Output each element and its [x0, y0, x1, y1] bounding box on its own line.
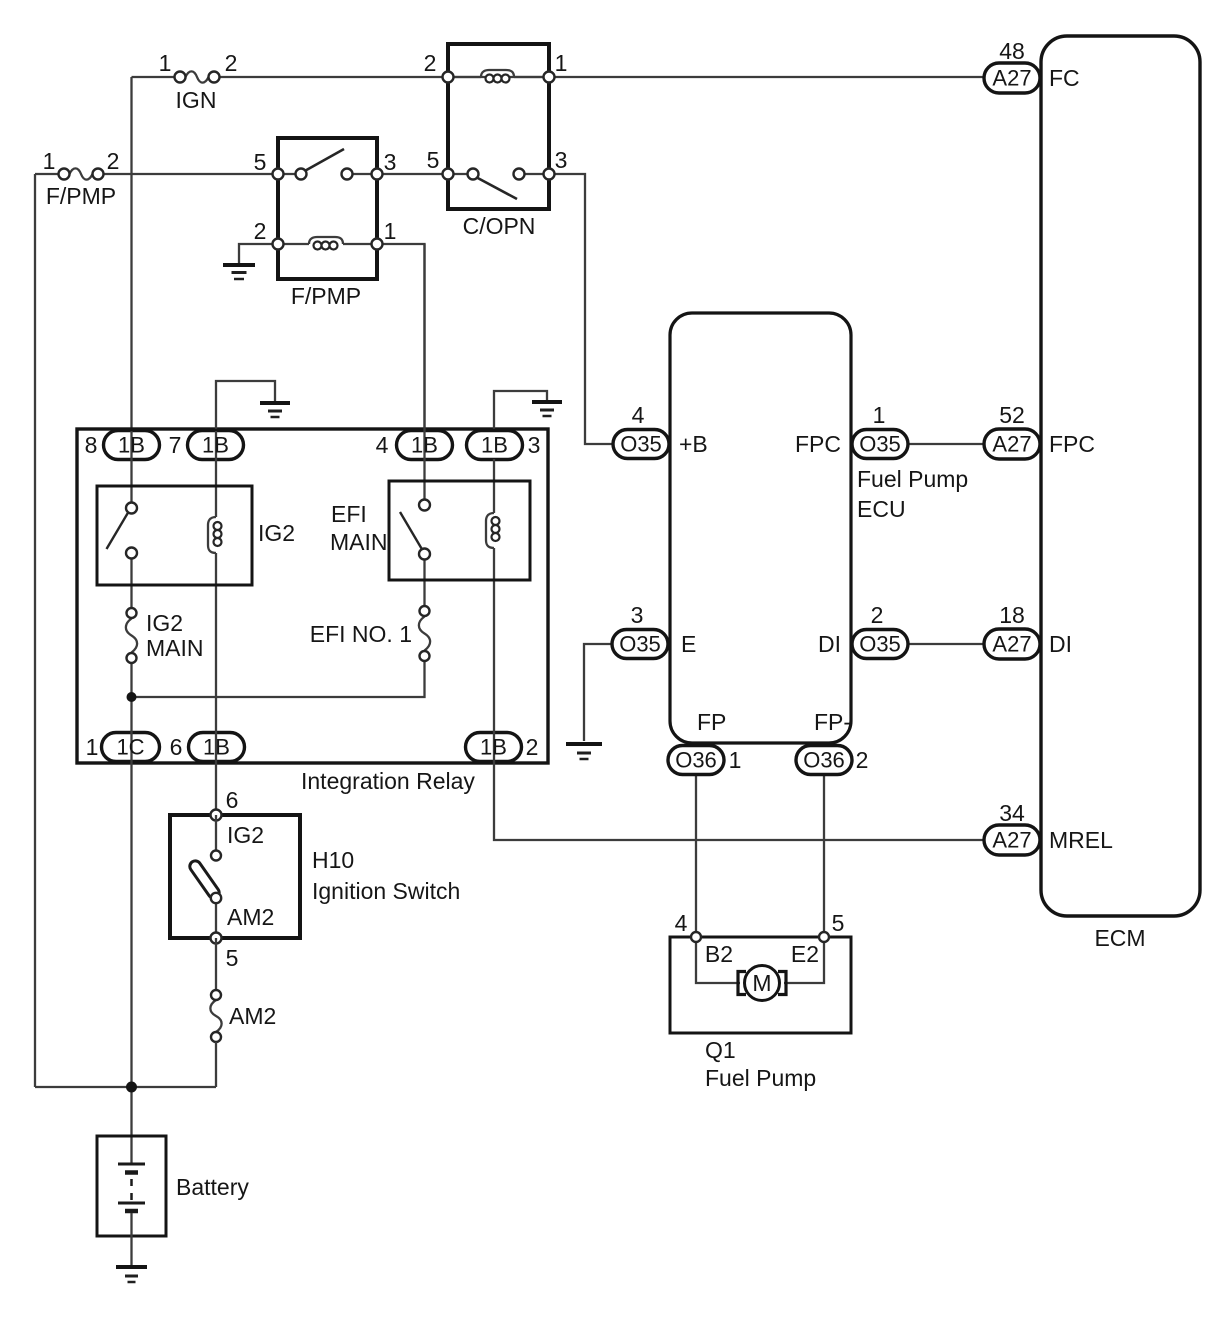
wire column pin4 oval to EFI MAIN switch [423, 244, 425, 500]
svg-text:O36: O36 [675, 748, 717, 773]
connector oval A27 DI [984, 629, 1040, 659]
wire ECU FP terminal down to fuel pump pin 4 [695, 774, 697, 937]
svg-text:2: 2 [225, 50, 238, 76]
connector oval A27 MREL [984, 825, 1040, 855]
wire AM2 fuse down to battery feed row [215, 1042, 217, 1087]
svg-text:A27: A27 [992, 828, 1031, 853]
relay EFI MAIN inner box [389, 481, 530, 580]
junction dot battery feed row [126, 1082, 137, 1093]
svg-text:1B: 1B [202, 433, 229, 458]
svg-text:IG2: IG2 [146, 610, 183, 636]
connector oval O35 +B [613, 430, 669, 459]
svg-text:1B: 1B [411, 433, 438, 458]
svg-text:5: 5 [427, 147, 440, 173]
svg-text:2: 2 [526, 734, 539, 760]
wire C/OPN pin 3 right then down to Fuel Pump ECU +B [549, 174, 614, 444]
battery cell plates [118, 1164, 145, 1211]
svg-text:MAIN: MAIN [146, 635, 204, 661]
svg-text:2: 2 [107, 148, 120, 174]
connector oval A27 FC [984, 63, 1040, 93]
svg-text:F/PMP: F/PMP [46, 183, 116, 209]
relay EFI MAIN switch contacts and blade [400, 500, 430, 560]
svg-text:AM2: AM2 [227, 904, 274, 930]
svg-text:DI: DI [1049, 631, 1072, 657]
svg-text:O35: O35 [619, 632, 661, 657]
svg-text:5: 5 [254, 149, 267, 175]
svg-text:Integration Relay: Integration Relay [301, 768, 475, 794]
svg-text:DI: DI [818, 631, 841, 657]
svg-text:5: 5 [226, 945, 239, 971]
fuel pump Q1 box [670, 937, 851, 1033]
svg-text:Fuel Pump: Fuel Pump [705, 1065, 816, 1091]
connector oval 1C pin 1 of Integration Relay [102, 733, 160, 762]
svg-text:1B: 1B [118, 433, 145, 458]
wire F/PMP relay pin 2 to ground stub [239, 244, 278, 263]
wire EFI NO. 1 fuse down and left to junction on IG2 MAIN column [132, 661, 425, 697]
svg-text:3: 3 [555, 147, 568, 173]
connector oval A27 FPC [984, 429, 1040, 459]
wire IG2 MAIN fuse through junction and 1C oval down to battery junction [130, 663, 132, 1164]
svg-text:FPC: FPC [795, 431, 841, 457]
svg-text:FP: FP [697, 709, 726, 735]
svg-text:3: 3 [384, 149, 397, 175]
svg-text:2: 2 [856, 747, 869, 773]
svg-text:E: E [681, 631, 696, 657]
svg-text:A27: A27 [992, 432, 1031, 457]
wire IGN feed: corner from top row down to Integration Relay pin 8 column [130, 77, 132, 431]
svg-text:Q1: Q1 [705, 1037, 736, 1063]
relay IG2 coil [208, 517, 222, 553]
wire ignition switch pin 5 to AM2 fuse [215, 938, 217, 990]
svg-text:O35: O35 [859, 432, 901, 457]
relay C/OPN coil [443, 70, 555, 83]
svg-text:34: 34 [999, 800, 1025, 826]
svg-text:48: 48 [999, 38, 1025, 64]
ignition switch H10 box [170, 815, 300, 938]
pin 5 circle of fuel pump [819, 932, 829, 942]
relay F/PMP coil [273, 237, 383, 250]
svg-text:1B: 1B [481, 433, 508, 458]
svg-text:ECM: ECM [1094, 925, 1145, 951]
svg-text:1C: 1C [116, 735, 144, 760]
wire ECU FP- terminal down to fuel pump pin 5 [823, 774, 825, 937]
battery box [97, 1136, 166, 1236]
svg-text:2: 2 [254, 218, 267, 244]
wire IG2 coil to pin 6 oval and on to ignition switch pin 6 [215, 553, 217, 815]
wire ground branch from Integration Relay pin 7 [216, 381, 275, 431]
svg-text:4: 4 [675, 910, 688, 936]
wire F/PMP fuse pin 2 to F/PMP relay pin 5 [98, 173, 278, 175]
motor M1 of fuel pump [738, 966, 786, 1001]
wire fuel pump internal left to motor [696, 937, 740, 983]
pin 5 circle of ignition switch [211, 933, 222, 944]
svg-text:1: 1 [86, 734, 99, 760]
wire F/PMP fuse row: left rail to fuse pin 1 [35, 173, 64, 175]
svg-text:IG2: IG2 [227, 822, 264, 848]
connector oval O35 DI [852, 630, 908, 659]
relay IG2 switch contacts and blade [107, 503, 138, 559]
svg-text:4: 4 [376, 432, 389, 458]
svg-text:1: 1 [43, 148, 56, 174]
wire ignition switch lower contact to pin 5 [215, 898, 217, 938]
svg-text:E2: E2 [791, 941, 819, 967]
svg-text:1: 1 [555, 50, 568, 76]
svg-text:ECU: ECU [857, 496, 906, 522]
connector oval 1B pin 8 of Integration Relay [104, 431, 160, 460]
connector oval 1B pin 3 of Integration Relay [467, 431, 523, 460]
svg-text:1: 1 [384, 218, 397, 244]
ECM box [1041, 36, 1200, 916]
wire FPC from Fuel Pump ECU to ECM [908, 443, 984, 445]
svg-text:EFI NO. 1: EFI NO. 1 [310, 621, 412, 647]
wire ground branch from Integration Relay pin 3 [494, 391, 547, 431]
wire EFI MAIN coil through 1B pin2 oval down then right to ECM MREL [494, 548, 984, 840]
wire F/PMP relay pin 1 right then down to Integration Relay pin 4 [377, 244, 425, 431]
svg-text:+B: +B [679, 431, 708, 457]
wire column pin3 oval to EFI MAIN coil [493, 459, 495, 513]
fuse IGN body [175, 71, 220, 82]
connector oval 1B pin 2 of Integration Relay [466, 733, 522, 762]
pin 4 circle of fuel pump [691, 932, 701, 942]
svg-text:2: 2 [871, 602, 884, 628]
wire left rail from F/PMP fuse pin 1 down to bottom junction row [34, 174, 36, 1087]
connector oval 1B pin 4 of Integration Relay [397, 431, 453, 460]
svg-text:MREL: MREL [1049, 827, 1113, 853]
svg-text:FC: FC [1049, 65, 1080, 91]
ground symbol at ECU E terminal [566, 744, 602, 759]
fuse F/PMP body [59, 168, 104, 179]
wire column pin7 oval to IG2 coil [215, 431, 217, 517]
wire fuel pump internal right to motor [784, 937, 824, 983]
Integration Relay outer box [77, 429, 548, 763]
ground symbol at F/PMP relay coil [223, 265, 255, 279]
svg-text:FPC: FPC [1049, 431, 1095, 457]
svg-text:C/OPN: C/OPN [463, 213, 536, 239]
svg-text:O35: O35 [859, 632, 901, 657]
svg-text:AM2: AM2 [229, 1003, 276, 1029]
connector oval 1B pin 6 of Integration Relay [189, 733, 245, 762]
wire top row from IGN fuse pin 2 to C/OPN pin 2 and on to ECM FC oval [214, 76, 984, 78]
Fuel Pump ECU box [670, 313, 851, 743]
svg-text:O35: O35 [620, 432, 662, 457]
svg-text:3: 3 [631, 602, 644, 628]
fuse EFI NO. 1 body [419, 606, 430, 661]
svg-text:4: 4 [632, 402, 645, 428]
junction dot on IG2 MAIN column [127, 692, 137, 702]
connector oval O35 E [612, 630, 668, 659]
wire ignition switch pin 6 to upper contact [215, 815, 217, 851]
svg-text:A27: A27 [992, 632, 1031, 657]
svg-text:IGN: IGN [176, 87, 217, 113]
pin 6 circle of ignition switch [211, 810, 222, 821]
relay F/PMP switch contacts and blade [273, 149, 383, 180]
svg-text:5: 5 [832, 910, 845, 936]
svg-text:M: M [752, 970, 771, 996]
svg-text:1: 1 [873, 402, 886, 428]
svg-text:6: 6 [170, 734, 183, 760]
svg-text:FP-: FP- [814, 709, 851, 735]
svg-text:1: 1 [159, 50, 172, 76]
ground symbol above Integration Relay pin 3 [532, 402, 562, 416]
svg-text:1B: 1B [480, 735, 507, 760]
wire DI from Fuel Pump ECU to ECM [908, 643, 984, 645]
svg-text:3: 3 [528, 432, 541, 458]
svg-text:2: 2 [424, 50, 437, 76]
wire top row y=77 from IGN corner to IGN fuse pin 1 [132, 76, 181, 78]
fuse AM2 body [210, 990, 221, 1042]
svg-text:B2: B2 [705, 941, 733, 967]
svg-text:A27: A27 [992, 66, 1031, 91]
svg-text:O36: O36 [803, 748, 845, 773]
connector oval O36 FP- [796, 746, 852, 775]
wire battery feed row from left rail to AM2 column [35, 1086, 216, 1088]
relay EFI MAIN coil [486, 513, 500, 548]
wire F/PMP relay pin 3 to C/OPN relay pin 5 [377, 173, 448, 175]
svg-text:H10: H10 [312, 847, 354, 873]
ground symbol above Integration Relay pin 7 [260, 403, 290, 417]
relay C/OPN box [448, 44, 549, 209]
svg-text:6: 6 [226, 787, 239, 813]
svg-text:Battery: Battery [176, 1174, 249, 1200]
ignition switch contacts and blade [188, 851, 222, 904]
svg-text:Ignition Switch: Ignition Switch [312, 878, 460, 904]
svg-text:IG2: IG2 [258, 520, 295, 546]
relay C/OPN switch contacts and blade [443, 169, 555, 200]
relay IG2 inner box [97, 486, 252, 585]
svg-text:1B: 1B [203, 735, 230, 760]
svg-text:1: 1 [729, 747, 742, 773]
svg-text:8: 8 [85, 432, 98, 458]
relay F/PMP box [278, 138, 377, 279]
wire ECU E terminal to ground [584, 644, 613, 741]
svg-text:Fuel Pump: Fuel Pump [857, 466, 968, 492]
wire column pin8 oval to IG2 switch [130, 431, 132, 503]
svg-text:18: 18 [999, 602, 1025, 628]
svg-text:52: 52 [999, 402, 1025, 428]
connector oval O35 FPC [852, 430, 908, 459]
connector oval 1B pin 7 of Integration Relay [188, 431, 244, 460]
connector oval O36 FP [668, 746, 724, 775]
wire EFI MAIN switch to EFI NO. 1 fuse [423, 559, 425, 606]
svg-text:7: 7 [169, 432, 182, 458]
fuse IG2 MAIN body [126, 608, 137, 663]
wire IG2 switch to IG2 MAIN fuse [130, 558, 132, 608]
svg-text:MAIN: MAIN [330, 529, 388, 555]
ground symbol at battery [116, 1267, 147, 1282]
wire battery negative to ground [130, 1213, 132, 1265]
svg-text:EFI: EFI [331, 501, 367, 527]
svg-text:F/PMP: F/PMP [291, 283, 361, 309]
